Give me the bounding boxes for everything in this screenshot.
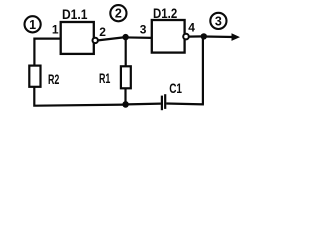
node 2 terminal circle: [110, 5, 126, 21]
svg-text:1: 1: [52, 22, 59, 36]
junction dot at output node: [201, 33, 207, 39]
capacitor C1 left plate: [161, 96, 163, 111]
node 3 terminal circle: [210, 13, 226, 29]
resistor R2: [29, 66, 40, 87]
inversion bubble on D1.2 output: [183, 34, 189, 40]
wire C1 to bottom junction: [126, 102, 161, 105]
junction dot below R1: [122, 101, 129, 108]
svg-text:4: 4: [188, 21, 195, 35]
inversion bubble on D1.1 output: [93, 38, 98, 43]
bottom wire from junction to R2 leg: [34, 87, 125, 106]
svg-text:D1.2: D1.2: [153, 5, 177, 21]
arrowhead: [232, 33, 241, 41]
wire from D1.2 output to output junction: [189, 35, 204, 37]
capacitor C1 right plate: [164, 94, 166, 109]
output wire with arrow: [204, 35, 234, 38]
wire R1 bottom to junction: [124, 89, 126, 105]
svg-text:R1: R1: [99, 70, 111, 86]
resistor R1: [121, 66, 131, 88]
svg-text:2: 2: [99, 25, 106, 39]
right vertical wire down to C1: [166, 36, 204, 104]
svg-text:R2: R2: [48, 71, 60, 87]
svg-text:1: 1: [29, 18, 36, 32]
svg-text:3: 3: [215, 14, 222, 28]
svg-text:C1: C1: [169, 80, 182, 96]
svg-text:2: 2: [115, 7, 122, 21]
op-amp U1 / logic element D1.1 body: [61, 22, 94, 54]
node 1 terminal circle: [24, 16, 40, 32]
wire from D1.1 output to node 2 junction: [98, 37, 126, 40]
wire junction to D1.2 input: [126, 36, 152, 39]
junction dot at node 2: [122, 34, 128, 40]
svg-text:3: 3: [140, 23, 147, 37]
wire from node 1 to D1.1 input and down to R2: [34, 39, 60, 65]
wire from node2 junction down to R1: [125, 38, 127, 67]
logic element D1.2 body: [152, 20, 185, 53]
svg-text:D1.1: D1.1: [62, 6, 88, 22]
